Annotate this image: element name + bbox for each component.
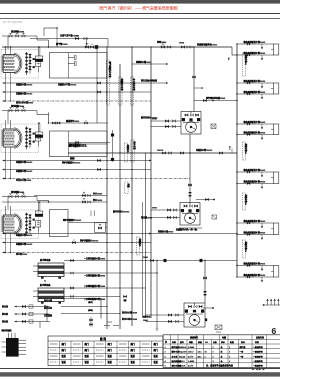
boiler B3 risers to header (6, 206, 11, 215)
branch pair F6 supply (236, 262, 273, 271)
dist line L2b (3, 168, 152, 173)
HX2 return valve pair (123, 295, 126, 301)
pump unit P1 box (181, 112, 201, 135)
G3b extra label+valve (72, 238, 99, 243)
boiler B2 tank bottom drops (5, 147, 11, 179)
HX2 left stubs (33, 291, 38, 297)
branch main riser x237 (236, 44, 238, 277)
branch pair F1 supply (236, 40, 273, 49)
boiler B2 burner feed drop (38, 122, 40, 132)
svg-text:N1: N1 (227, 58, 229, 60)
svg-text:2: 2 (213, 347, 214, 349)
boxed valve near B3 (95, 223, 108, 233)
riser label R2 (242, 142, 248, 160)
riser x157 lower (156, 261, 158, 329)
svg-text:2: 2 (213, 361, 214, 363)
gas branch drop x86.5 (86, 39, 88, 48)
branch pair F6 radiator (271, 266, 279, 278)
dist line L3b (3, 241, 152, 246)
boiler unit B3 enclosure (dashed) (1, 210, 39, 239)
bl pipe 2 (1, 312, 50, 316)
stub y202 (2, 198, 107, 203)
boiler B3 flange column (25, 213, 27, 236)
branch pair F5 return (236, 231, 273, 240)
branch pair F4 supply (236, 168, 273, 177)
boiler unit B1 enclosure (dashed) (1, 50, 39, 79)
HX2 supply pipe (64, 284, 146, 289)
dist line L3a (3, 232, 152, 237)
svg-text:6m³/h: 6m³/h (188, 355, 194, 358)
riser label M4 (124, 143, 130, 162)
boiler B2 burner piping (2, 108, 49, 124)
riser x97 (96, 47, 98, 123)
boiler B1 burner box (50, 53, 108, 79)
riser ends (104, 322, 121, 329)
cabinet right terminals (19, 340, 26, 354)
branch pair F2 radiator (271, 83, 279, 94)
softener labels (44, 298, 52, 317)
mid header y152.5 (68, 148, 237, 154)
PL1 tick (231, 149, 233, 154)
bottom toolbar band (0, 372, 280, 376)
svg-text:（燃气蒸汽（锅炉房）——燃气采暖系统原理图）: （燃气蒸汽（锅炉房）——燃气采暖系统原理图） (96, 5, 181, 10)
svg-text:4m³/h: 4m³/h (188, 365, 194, 368)
cabinet left ticks (2, 342, 7, 352)
boiler B2 outlet valve group (29, 128, 41, 148)
legend cells (50, 342, 159, 364)
riser x107 (106, 47, 108, 326)
riser x112.5 short (111, 130, 114, 162)
dist line L1b (3, 91, 152, 96)
legend table frame (48, 336, 163, 366)
svg-text:2: 2 (213, 356, 214, 358)
pump P3 drain hatch (215, 325, 222, 332)
svg-text:WNS2.8: WNS2.8 (179, 347, 187, 349)
gas branch pipe y38.5 (30, 36, 108, 40)
boiler B1 tank bottom drops (5, 73, 11, 102)
riser x145.5 (145, 153, 147, 319)
pump P2 impeller (185, 213, 196, 224)
svg-text:BR0.3: BR0.3 (179, 361, 185, 363)
svg-text:120m³: 120m³ (188, 351, 194, 354)
top toolbar band (0, 0, 280, 4)
frame line top inner (0, 18, 280, 20)
svg-text:图 例: 图 例 (100, 337, 106, 341)
svg-text:2: 2 (229, 347, 230, 349)
pump P2 top stub (196, 198, 215, 200)
riser label M5 (125, 182, 131, 194)
feed y231.5 (ext of L3a) (151, 229, 238, 234)
branch pair F4 radiator (271, 172, 279, 184)
unit2 link y123 (50, 119, 108, 124)
boiler B2 supply pipe (68, 143, 108, 147)
dist line L3c (3, 251, 152, 256)
pump P1 impeller (186, 122, 197, 133)
boiler B3 burner feed drop (38, 201, 40, 211)
bl vertical connector (46, 307, 48, 322)
boiler B2 tank shell (2, 128, 22, 148)
boiler B1 burner feed drop (38, 46, 40, 56)
riser label R4 (242, 240, 248, 258)
boiler B3 outlet valve group (29, 214, 41, 234)
svg-text:DN125: DN125 (157, 150, 164, 152)
svg-text:1.4MW: 1.4MW (188, 360, 194, 363)
wire burner1 drop (48, 40, 50, 47)
header valve set A (157, 40, 172, 48)
link valve marks (188, 184, 191, 197)
boiler B1 outlet valve group (29, 54, 41, 74)
branch pair F6 return (236, 273, 273, 282)
boiler B2 burner box (50, 131, 108, 157)
heat exchanger HX1 (38, 263, 64, 279)
header end elbow (232, 47, 237, 55)
HX1 return pipe (64, 272, 158, 278)
gas branch drop x108 (107, 39, 109, 48)
equipment table frame (163, 335, 280, 368)
dist line L2c (3, 177, 191, 182)
bl drop (39, 322, 41, 329)
svg-text:kW: kW (205, 342, 208, 344)
pump unit P3 box (184, 303, 205, 327)
boiler unit B2 enclosure (dashed) (1, 124, 39, 153)
pump P3 feed riser (204, 261, 206, 304)
svg-text:3: 3 (205, 356, 206, 358)
stub y195.5 (34, 191, 107, 196)
branch pair F5 supply (236, 219, 273, 228)
bl pipe 1 (1, 304, 50, 308)
riser label R1 (242, 53, 248, 76)
riser x142.5 (142, 202, 144, 318)
svg-text:2: 2 (229, 361, 230, 363)
branch pair F2 return (236, 90, 273, 99)
frame line bottom (0, 368, 280, 370)
riser label M3 (130, 77, 136, 105)
dist line L1c (3, 100, 152, 105)
pump P1 valves (182, 112, 200, 123)
frame line top outer (0, 13, 280, 15)
svg-text:40m: 40m (198, 355, 202, 358)
boiler B1 burner piping (2, 27, 58, 49)
boiler B1 box divider (68, 53, 70, 79)
branch pair F1 return (236, 51, 273, 60)
pump P1 top stub (194, 96, 238, 102)
riser label M1 (106, 60, 112, 105)
pump P2 base line (179, 227, 202, 229)
svg-text:2: 2 (229, 356, 230, 358)
pump P1 riser from header (193, 47, 195, 112)
boiler B2 flange column (25, 127, 27, 150)
equipment table rows (165, 345, 263, 368)
riser label M2 (119, 77, 125, 105)
boiler B3 tank bottom drops (5, 233, 11, 253)
unit2 link label line y142.3 (68, 141, 110, 146)
pump P3 inlet pipes (122, 310, 184, 322)
pump unit P2 box (180, 203, 200, 226)
boiler B1 risers to header (5, 46, 12, 54)
boiler B3 burner box (50, 210, 69, 237)
boiler B1 flange column (25, 52, 27, 75)
riser x120 (119, 64, 121, 326)
boiler B2 burner fitting (35, 132, 43, 138)
wire burner3 drop (48, 201, 50, 203)
riser x132 (131, 47, 133, 326)
softener outlet stubs (101, 306, 121, 314)
branch pair F4 return (236, 180, 273, 189)
svg-text:KQL100: KQL100 (179, 352, 186, 354)
boiler B3 burner piping (2, 194, 49, 210)
boiler B1 box stubs (68, 56, 76, 66)
riser label R3 (242, 193, 248, 210)
svg-text:DN65: DN65 (152, 208, 157, 210)
softener valve stack (90, 317, 93, 327)
pump P2 drain box (212, 215, 217, 219)
riser end labels (143, 315, 151, 322)
svg-text:2.8MW: 2.8MW (188, 347, 194, 349)
softener box (61, 299, 101, 319)
header valve set B (179, 43, 193, 49)
pump P1 down link (189, 134, 191, 203)
riser label M3b (131, 140, 137, 162)
pump P1 inlet pipes (151, 119, 181, 128)
branch pair F5 radiator (271, 223, 279, 235)
svg-text:DN65: DN65 (152, 119, 157, 121)
boiler B1 burner fitting (35, 56, 43, 62)
svg-text:3: 3 (213, 352, 214, 354)
main header pipe y47 (2, 46, 232, 48)
svg-text:32m: 32m (198, 352, 202, 354)
wire burner2 drop (48, 113, 50, 124)
boiler B1 tank shell (2, 53, 22, 73)
HX1 supply pipe (64, 256, 237, 262)
blob marker (70, 157, 75, 159)
HX id marks (44, 281, 47, 308)
svg-text:KQL40: KQL40 (179, 355, 185, 358)
branch pair F1 radiator (271, 44, 279, 55)
pump P3 valves (185, 303, 204, 314)
boiler B3 tank shell (2, 214, 22, 234)
equipment table headers (164, 336, 264, 345)
comb / radiator symbol (263, 299, 280, 306)
boiler B2 risers to header (6, 120, 11, 129)
dist line L2a (3, 159, 152, 164)
B3 corner ticks (91, 211, 95, 217)
svg-text:3: 3 (229, 352, 230, 354)
branch pair F3 radiator (271, 124, 279, 135)
riser x151 (150, 47, 152, 318)
svg-text:DN40: DN40 (143, 319, 148, 322)
branch pair F3 return (236, 131, 273, 140)
boiler B3 burner fitting (35, 211, 43, 217)
header valve cluster x84-100 (85, 44, 98, 49)
svg-text:2: 2 (165, 352, 166, 354)
svg-text:DN80: DN80 (179, 43, 185, 45)
pump P3 impeller (189, 315, 200, 326)
expansion line y64 (132, 60, 168, 65)
feed y265.5 dot (236, 265, 237, 266)
HX2 return pipe (64, 295, 120, 301)
boiler B3 return pipe (62, 218, 108, 223)
dist line L1a (3, 82, 169, 87)
bl pipe 3 (1, 319, 50, 323)
branch pair F3 supply (236, 120, 273, 129)
HX1 left stubs (33, 266, 38, 272)
electric cabinet (solid) (6, 338, 19, 357)
branch pair F2 supply (236, 79, 273, 88)
pump P2 inlet pipes (151, 208, 180, 219)
svg-text:3: 3 (165, 356, 166, 358)
boiler B2 box divider (68, 131, 70, 157)
pump P2 valves (181, 203, 199, 214)
pump P3 stub right (203, 307, 214, 309)
heat exchanger HX2 (38, 288, 64, 304)
riser label M6 (136, 237, 142, 255)
cabinet top leads (9, 333, 16, 338)
svg-text:FLECK: FLECK (179, 366, 186, 368)
pump P1 drain box (211, 124, 216, 129)
